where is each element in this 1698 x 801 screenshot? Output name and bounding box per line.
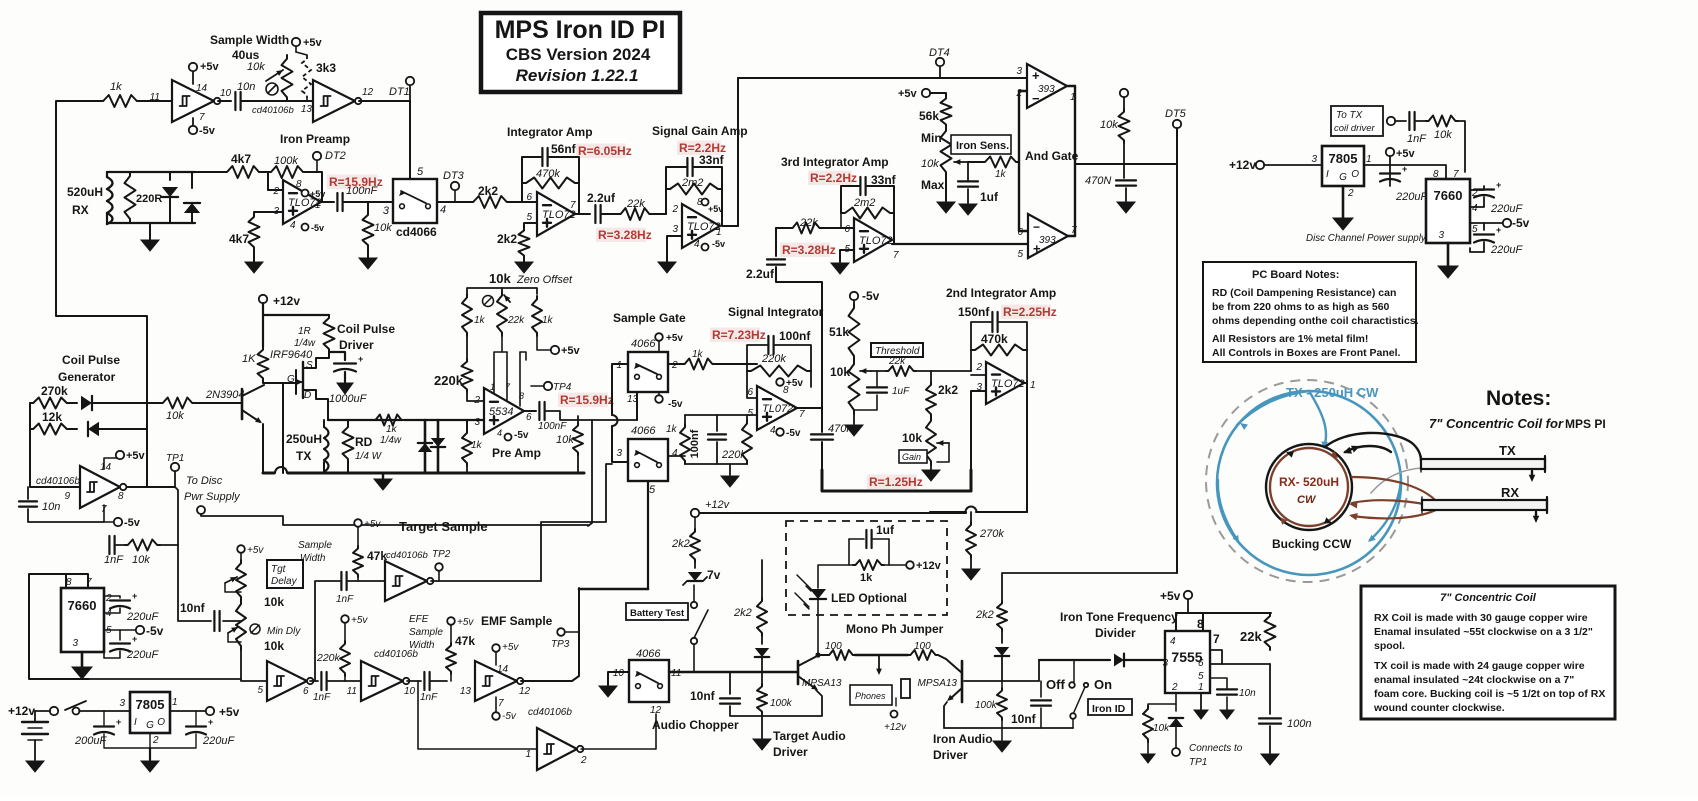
7555 top rail bbox=[1176, 612, 1271, 614]
svg-text:I: I bbox=[134, 717, 137, 728]
resistor 10k pull bbox=[1120, 89, 1128, 97]
battery symbol bbox=[34, 711, 36, 722]
preamp bottom rail bbox=[466, 466, 468, 473]
svg-text:2m2: 2m2 bbox=[681, 177, 703, 189]
potentiometer 10k iron sens bbox=[941, 127, 952, 176]
analog switch 4066 sample A bbox=[628, 352, 668, 392]
svg-text:220R: 220R bbox=[136, 193, 162, 205]
svg-text:R=2.25Hz: R=2.25Hz bbox=[1003, 305, 1057, 319]
svg-text:220uF: 220uF bbox=[126, 611, 159, 623]
op-amp U3 TLO72 iron preamp bbox=[283, 180, 321, 224]
svg-text:100nF: 100nF bbox=[538, 421, 567, 432]
resistor 220R bbox=[125, 172, 136, 223]
resistor 10k divider left bbox=[1148, 704, 1176, 706]
capacitor 100n divider bbox=[1269, 664, 1271, 714]
blue TX coil circle bbox=[1217, 391, 1401, 575]
svg-text:cd40106b: cd40106b bbox=[36, 476, 80, 487]
and gate output wire bbox=[1075, 163, 1177, 165]
svg-text:8: 8 bbox=[296, 179, 302, 190]
svg-text:5: 5 bbox=[747, 408, 753, 419]
iron id box bbox=[1088, 699, 1132, 715]
svg-text:+5v: +5v bbox=[200, 61, 220, 73]
comparator U8 393 lower bbox=[1028, 214, 1068, 258]
resistor 2m2 feedback gain amp bbox=[666, 184, 722, 195]
-5v terminal below U1 bbox=[192, 118, 194, 126]
svg-text:33nf: 33nf bbox=[871, 173, 897, 187]
svg-text:TX: TX bbox=[1499, 443, 1516, 458]
svg-text:8: 8 bbox=[1433, 169, 1439, 180]
wire out to 2.2uf bbox=[575, 213, 590, 215]
+12v to 2k2 zener chain bbox=[694, 517, 696, 529]
svg-text:-5v: -5v bbox=[146, 624, 164, 638]
wire pin13 stub bbox=[636, 392, 638, 420]
TX coil rail bbox=[328, 419, 402, 421]
svg-text:10k: 10k bbox=[921, 158, 939, 170]
DT5 long vertical wire bbox=[1176, 128, 1178, 573]
svg-text:10k: 10k bbox=[830, 365, 850, 379]
wire rail to preamp input bbox=[404, 419, 420, 421]
wire 10k to 7660 pin7 bbox=[1458, 121, 1465, 172]
cpg left vertical bbox=[29, 403, 31, 429]
wire threshold node to 2nd int bbox=[931, 370, 971, 372]
schmitt inverter U9 cd40106b pins 9/8 bbox=[80, 466, 120, 508]
resistor 47k target bbox=[357, 527, 359, 546]
led optional dashed box bbox=[786, 521, 947, 615]
svg-text:Signal Gain Amp: Signal Gain Amp bbox=[652, 124, 748, 138]
resistor 270k bbox=[30, 398, 70, 409]
svg-text:6: 6 bbox=[526, 412, 532, 423]
capacitor 220uF out bbox=[186, 725, 206, 727]
svg-text:7: 7 bbox=[1213, 632, 1220, 646]
resistor 1R source bbox=[324, 315, 335, 352]
svg-text:5: 5 bbox=[1472, 224, 1478, 235]
+5v terminal 47k emf bbox=[447, 617, 455, 625]
svg-text:Target Sample: Target Sample bbox=[399, 519, 488, 534]
capacitor 200uF bbox=[103, 711, 105, 725]
capacitor 1nF efe row bbox=[320, 672, 322, 690]
-5v terminal U5 bbox=[702, 244, 709, 251]
svg-text:220k: 220k bbox=[316, 652, 341, 664]
svg-text:+5v: +5v bbox=[502, 642, 519, 653]
svg-text:6: 6 bbox=[1017, 227, 1023, 238]
svg-text:10k: 10k bbox=[166, 410, 184, 422]
label R=15.9Hz preamp bbox=[327, 175, 377, 189]
svg-text:1k: 1k bbox=[666, 424, 678, 435]
svg-text:1: 1 bbox=[1030, 380, 1036, 391]
svg-text:-5v: -5v bbox=[668, 399, 683, 410]
svg-text:5: 5 bbox=[1198, 671, 1204, 682]
svg-text:+5v: +5v bbox=[364, 519, 381, 530]
svg-text:S: S bbox=[306, 360, 313, 371]
rx coil outer circle bbox=[1266, 444, 1352, 530]
svg-text:10k: 10k bbox=[264, 595, 284, 609]
svg-text:4066: 4066 bbox=[636, 648, 661, 660]
svg-text:TP1: TP1 bbox=[1189, 757, 1207, 768]
svg-text:100nf: 100nf bbox=[689, 429, 701, 458]
capacitor 470N bbox=[1116, 179, 1136, 181]
svg-text:3rd Integrator Amp: 3rd Integrator Amp bbox=[781, 155, 889, 169]
svg-text:470k: 470k bbox=[981, 332, 1008, 346]
capacitor 470n bbox=[811, 433, 833, 435]
svg-text:-5v: -5v bbox=[786, 428, 801, 439]
svg-text:TP3: TP3 bbox=[551, 639, 570, 650]
resistor 2k2 battery test bbox=[690, 529, 700, 562]
title block border bbox=[481, 13, 680, 92]
svg-text:+: + bbox=[208, 717, 213, 727]
wire 2k2 to pin6 bbox=[510, 201, 537, 203]
op-amp U12 TLO72 2nd integrator bbox=[986, 362, 1024, 404]
svg-text:enamal insulated ~24t clockwis: enamal insulated ~24t clockwise on a 7" bbox=[1374, 674, 1574, 686]
svg-text:TX coil is made with 24 gauge: TX coil is made with 24 gauge copper wir… bbox=[1374, 660, 1585, 672]
svg-text:22k: 22k bbox=[507, 315, 525, 326]
+12v terminal audio bbox=[691, 509, 699, 517]
capacitor 220uF 7660 bottom bbox=[1483, 223, 1485, 230]
resistor 10k preamp out bbox=[577, 416, 579, 423]
svg-text:2: 2 bbox=[1171, 682, 1178, 693]
svg-text:220k: 220k bbox=[761, 353, 786, 365]
rx tank bottom rail bbox=[107, 222, 195, 224]
svg-text:MPSA13: MPSA13 bbox=[918, 678, 958, 689]
svg-text:Integrator Amp: Integrator Amp bbox=[507, 125, 593, 139]
svg-text:+5v: +5v bbox=[786, 378, 803, 389]
pc board notes box bbox=[1203, 262, 1416, 362]
svg-text:3: 3 bbox=[616, 448, 622, 459]
svg-text:220uF: 220uF bbox=[202, 735, 235, 747]
svg-text:Driver: Driver bbox=[933, 748, 968, 762]
svg-text:2.2uf: 2.2uf bbox=[746, 267, 775, 281]
label R=1.25Hz bbox=[867, 475, 917, 489]
ground 7805 disc bbox=[1342, 186, 1345, 218]
capacitor 10n bbox=[234, 92, 236, 110]
battery test box bbox=[626, 603, 688, 620]
svg-text:+: + bbox=[1496, 180, 1501, 190]
concentric coil box bbox=[1361, 586, 1615, 719]
svg-text:10n: 10n bbox=[1239, 688, 1256, 699]
svg-text:22k: 22k bbox=[1240, 629, 1262, 644]
svg-text:3: 3 bbox=[1016, 66, 1022, 77]
wire 10k to 2N3904 base bbox=[195, 402, 242, 404]
-5v terminal U16 bbox=[495, 697, 497, 712]
transistor Q4 MPSA13 iron bbox=[961, 661, 964, 702]
svg-text:250uH: 250uH bbox=[286, 432, 322, 446]
svg-text:-5v: -5v bbox=[502, 711, 517, 722]
svg-text:RX- 520uH: RX- 520uH bbox=[1279, 475, 1339, 489]
svg-text:4: 4 bbox=[1170, 636, 1176, 647]
zener diode 7v bbox=[694, 562, 696, 568]
svg-text:1: 1 bbox=[172, 697, 178, 708]
svg-text:1k: 1k bbox=[471, 440, 483, 451]
gate wire bbox=[263, 381, 296, 383]
threshold box bbox=[871, 343, 923, 357]
svg-text:TX - 250uH CW: TX - 250uH CW bbox=[1286, 385, 1379, 400]
ground 4k7 bbox=[245, 262, 263, 273]
svg-text:470k: 470k bbox=[536, 168, 560, 180]
-5v output terminal bbox=[1470, 222, 1503, 224]
resistor 4k7 to ground bbox=[254, 212, 283, 214]
ground 1uf iron sens bbox=[967, 189, 969, 203]
node TP4 bbox=[531, 385, 544, 387]
ground threshold pot bbox=[853, 414, 855, 424]
svg-text:spool.: spool. bbox=[1374, 640, 1405, 652]
divider rail to diode bbox=[1039, 659, 1110, 661]
-5v terminal gate A bbox=[658, 392, 660, 395]
resistor 100k audio bbox=[761, 672, 763, 684]
2nd int output loop bbox=[1024, 382, 1027, 384]
svg-text:coil driver: coil driver bbox=[1334, 123, 1375, 134]
svg-text:Iron ID: Iron ID bbox=[1092, 703, 1126, 715]
wire hop over preamp rail bbox=[612, 415, 618, 426]
svg-text:Mono Ph Jumper: Mono Ph Jumper bbox=[846, 622, 944, 636]
svg-text:10k: 10k bbox=[264, 639, 284, 653]
ground 100n bbox=[1269, 726, 1271, 753]
wire 22k into 3rd integrator bbox=[776, 227, 790, 229]
resistor RD damp bbox=[347, 420, 349, 424]
svg-text:Off: Off bbox=[1046, 677, 1065, 692]
svg-text:3: 3 bbox=[1311, 154, 1317, 165]
svg-text:3: 3 bbox=[1438, 230, 1444, 241]
wire into U17 bbox=[418, 681, 537, 749]
+5v terminal si bbox=[776, 378, 784, 386]
svg-text:7" Concentric Coil: 7" Concentric Coil bbox=[1440, 592, 1537, 604]
diode D1 rx clamp bbox=[169, 172, 171, 180]
svg-text:100nF: 100nF bbox=[346, 185, 378, 197]
wire U3 out to 100nF bbox=[321, 201, 334, 203]
+5v terminal disc bbox=[1386, 148, 1394, 156]
resistor 100 mono2 bbox=[908, 650, 938, 660]
TX bar arrow bbox=[1531, 471, 1533, 478]
capacitor 10n divider bbox=[1210, 678, 1227, 688]
svg-text:cd4066: cd4066 bbox=[396, 225, 437, 239]
min dly trim bbox=[250, 624, 260, 634]
wire gain amp output up to top rail bbox=[737, 78, 739, 226]
svg-text:4: 4 bbox=[694, 239, 700, 250]
and gate right vertical bbox=[1067, 85, 1075, 87]
svg-text:MPS PI: MPS PI bbox=[1565, 417, 1606, 431]
svg-text:8: 8 bbox=[519, 391, 524, 401]
wire gate B pin5 down bbox=[647, 481, 649, 589]
to disc pwr terminal bbox=[197, 506, 205, 514]
svg-text:I: I bbox=[1326, 169, 1329, 180]
svg-text:270k: 270k bbox=[979, 528, 1004, 540]
resistor 2k2 gain bbox=[930, 371, 932, 382]
wire switch top bbox=[1073, 663, 1075, 682]
svg-text:2k2: 2k2 bbox=[733, 607, 752, 619]
svg-text:6: 6 bbox=[526, 192, 532, 203]
svg-text:10k: 10k bbox=[1434, 129, 1452, 141]
svg-text:+5v: +5v bbox=[310, 189, 325, 199]
svg-text:be from 220 ohms to as high as: be from 220 ohms to as high as 560 bbox=[1212, 301, 1390, 313]
resistor 220k si gnd bbox=[746, 415, 748, 420]
svg-text:4k7: 4k7 bbox=[229, 232, 249, 246]
svg-text:200uF: 200uF bbox=[74, 735, 107, 747]
capacitor 10nf bus bbox=[178, 545, 211, 621]
svg-text:9: 9 bbox=[64, 491, 70, 502]
3rd integrator feedback wires bbox=[841, 186, 859, 213]
svg-text:2k2: 2k2 bbox=[938, 383, 958, 397]
terminal to tx bbox=[1387, 117, 1395, 125]
svg-text:Disc Channel Power supply: Disc Channel Power supply bbox=[1306, 233, 1427, 244]
pot 10k min dly bbox=[236, 600, 246, 650]
svg-text:All Controls in Boxes are Fron: All Controls in Boxes are Front Panel. bbox=[1212, 347, 1401, 359]
preamp input node wires bbox=[467, 392, 484, 401]
wire DT1 down to cd4066 pin5 bbox=[409, 101, 411, 179]
svg-text:R=2.2Hz: R=2.2Hz bbox=[810, 171, 857, 185]
wire gate A out to 1k bbox=[668, 363, 682, 365]
resistor 100 mono1 bbox=[819, 654, 827, 656]
wire 7660 pins to top rail bbox=[29, 574, 89, 679]
wire 10n to U2 pin13 bbox=[242, 100, 313, 102]
-5v terminal main bbox=[104, 629, 136, 631]
op-amp U6 TLO72 3rd integrator bbox=[854, 218, 892, 262]
inductor 250uH TX bbox=[324, 427, 329, 472]
svg-text:100k: 100k bbox=[975, 700, 998, 711]
+5v terminal 7555 bbox=[1184, 591, 1192, 599]
battery test switch bbox=[693, 585, 695, 601]
wire si pin6 bbox=[747, 371, 757, 398]
svg-text:2k2: 2k2 bbox=[671, 538, 690, 550]
capacitor 2.2uf 3rd input bbox=[767, 258, 785, 260]
svg-text:1uf: 1uf bbox=[876, 523, 895, 537]
svg-text:10: 10 bbox=[613, 668, 625, 679]
resistor 2k2 on pin5 to ground bbox=[524, 223, 537, 228]
svg-text:−: − bbox=[1033, 220, 1040, 234]
svg-text:2N3904: 2N3904 bbox=[205, 389, 245, 401]
svg-text:Generator: Generator bbox=[58, 370, 116, 384]
svg-text:Iron Sens.: Iron Sens. bbox=[956, 140, 1009, 152]
wire 7555 pin6 to 22k bbox=[1210, 663, 1270, 665]
svg-text:R=3.28Hz: R=3.28Hz bbox=[598, 228, 652, 242]
svg-text:PC Board Notes:: PC Board Notes: bbox=[1252, 269, 1339, 281]
svg-text:Min Dly: Min Dly bbox=[267, 626, 301, 637]
phones box bbox=[850, 685, 892, 705]
svg-text:1nF: 1nF bbox=[1407, 133, 1427, 145]
ground 10k bbox=[359, 258, 377, 269]
led loop wires bbox=[849, 539, 853, 565]
wire 7555 pin2 down bbox=[1175, 693, 1177, 711]
wire U17 out to chopper pin12 bbox=[581, 714, 656, 749]
node DT4 bbox=[939, 67, 941, 78]
si feedback wires bbox=[747, 345, 768, 364]
audio rail from chopper bbox=[669, 671, 798, 673]
wire 100nF to cd4066 bbox=[344, 201, 393, 203]
svg-text:12: 12 bbox=[650, 705, 662, 716]
svg-text:4k7: 4k7 bbox=[231, 152, 251, 166]
svg-text:Gain: Gain bbox=[902, 452, 921, 462]
capacitor 2.2uf series bbox=[594, 205, 596, 223]
to tx coil driver box bbox=[1331, 106, 1383, 136]
pot 10k threshold bbox=[849, 360, 860, 414]
resistor 22k 3rd input bbox=[790, 223, 822, 234]
svg-text:Driver: Driver bbox=[773, 745, 808, 759]
svg-text:14: 14 bbox=[100, 462, 112, 473]
node DT2 bbox=[316, 160, 318, 172]
zero offset bottom wires bbox=[466, 336, 468, 359]
+5v terminal 47k target bbox=[354, 519, 362, 527]
wire cpg to 10k base resistor bbox=[147, 402, 160, 404]
svg-text:-5v: -5v bbox=[712, 239, 725, 249]
svg-text:+: + bbox=[1032, 68, 1040, 83]
-5v terminal 5534 bbox=[505, 434, 512, 441]
wire si output bus y512 to +12v terminal bbox=[699, 512, 966, 514]
svg-text:+5v: +5v bbox=[219, 705, 240, 719]
svg-text:7: 7 bbox=[498, 698, 504, 709]
iron sens wiper arrow bbox=[954, 161, 968, 163]
svg-text:Max: Max bbox=[921, 178, 945, 192]
svg-text:12k: 12k bbox=[42, 410, 62, 424]
ground integrator 2k2 bbox=[515, 262, 533, 273]
capacitor 220uF 7660 top bbox=[1470, 186, 1484, 190]
label R=2.2Hz 3rd bbox=[808, 171, 852, 185]
svg-text:+5v: +5v bbox=[351, 615, 368, 626]
svg-text:Min: Min bbox=[921, 131, 942, 145]
wire led to mono rail bbox=[815, 652, 820, 657]
thick audio bus y589 bbox=[579, 588, 648, 591]
svg-text:RX: RX bbox=[72, 203, 89, 217]
svg-text:2k2: 2k2 bbox=[975, 609, 994, 621]
svg-text:5534: 5534 bbox=[489, 406, 513, 418]
svg-text:10nf: 10nf bbox=[180, 601, 206, 615]
node DT5 bbox=[1173, 120, 1181, 128]
ic 7805 disc supply bbox=[1322, 146, 1364, 186]
resistor 2k2 audio bbox=[757, 598, 767, 636]
capacitor 220uF main bottom bbox=[119, 630, 121, 640]
wire wiper to 1k bbox=[968, 161, 982, 163]
wire U1 output to cap 10n bbox=[218, 100, 231, 102]
capacitor 56nf feedback bbox=[541, 148, 543, 166]
+5v terminal tgt delay bbox=[237, 545, 245, 553]
svg-text:7: 7 bbox=[1453, 169, 1459, 180]
svg-text:150nf: 150nf bbox=[958, 305, 990, 319]
svg-text:7660: 7660 bbox=[1434, 188, 1463, 203]
wire from 1k resistor to left rail bbox=[56, 101, 147, 487]
svg-text:-5v: -5v bbox=[1512, 216, 1530, 230]
label R=3.28Hz 3rd bbox=[780, 243, 830, 257]
svg-text:1k: 1k bbox=[542, 315, 554, 326]
2nd int feedback wires bbox=[971, 322, 991, 371]
resistor 270k out bbox=[970, 512, 972, 522]
svg-text:100k: 100k bbox=[770, 698, 793, 709]
svg-text:270k: 270k bbox=[41, 384, 68, 398]
schmitt inverter U16 emf pins 13/12 bbox=[475, 661, 517, 701]
wire U16 out to bus bbox=[521, 588, 579, 681]
svg-text:470N: 470N bbox=[1085, 175, 1111, 187]
ground 7805 main bbox=[149, 748, 151, 760]
svg-text:G: G bbox=[146, 720, 154, 731]
svg-text:100: 100 bbox=[825, 641, 842, 652]
svg-text:40us: 40us bbox=[232, 48, 260, 62]
pot 10k gain bbox=[926, 417, 936, 465]
svg-text:7" Concentric Coil for: 7" Concentric Coil for bbox=[1429, 416, 1564, 431]
svg-text:D: D bbox=[304, 390, 311, 401]
svg-text:7: 7 bbox=[893, 250, 899, 261]
resistor 51k bbox=[853, 300, 855, 304]
label R=2.25Hz bbox=[1001, 305, 1051, 319]
driver ground rail bbox=[263, 472, 274, 475]
svg-text:+5v: +5v bbox=[898, 88, 918, 100]
svg-text:+: + bbox=[132, 591, 137, 601]
svg-text:3: 3 bbox=[119, 698, 125, 709]
svg-text:wound counter clockwise.: wound counter clockwise. bbox=[1373, 702, 1505, 714]
capacitor 33nf feedback gain amp bbox=[686, 158, 688, 176]
svg-text:11: 11 bbox=[671, 668, 681, 679]
gain box bbox=[899, 450, 927, 463]
svg-text:220uF: 220uF bbox=[126, 649, 159, 661]
svg-text:2m2: 2m2 bbox=[853, 197, 875, 209]
svg-text:56k: 56k bbox=[919, 109, 939, 123]
resistor 10k to ground after cap bbox=[367, 202, 369, 212]
svg-text:1R: 1R bbox=[298, 326, 311, 337]
resistor 1k si gnd bbox=[684, 415, 686, 424]
